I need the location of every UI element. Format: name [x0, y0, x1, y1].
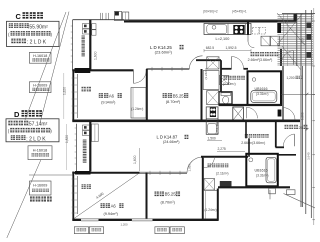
closet C	[131, 88, 146, 119]
svg-text:(9.94m²): (9.94m²)	[101, 100, 116, 104]
svg-text:1,500: 1,500	[208, 136, 216, 140]
svg-text:(9.94m²): (9.94m²)	[104, 212, 119, 216]
wall bedroom A/B D	[146, 173, 148, 220]
svg-text:H-16009: H-16009	[33, 184, 47, 188]
sliding door track D	[140, 171, 188, 173]
balcony D ticks	[75, 127, 77, 129]
washer pan box C	[220, 76, 229, 85]
svg-text:3,640: 3,640	[307, 152, 311, 160]
svg-text:2.66m²(3.66m²): 2.66m²(3.66m²)	[241, 141, 265, 145]
bottom exterior wall	[72, 219, 218, 221]
balcony C ticks	[71, 25, 73, 27]
washroom D door arc	[203, 157, 205, 168]
bath D bottom wall	[218, 186, 290, 188]
door arc bedroom A C	[132, 70, 134, 83]
hall wall C with door	[247, 22, 249, 35]
svg-text::57.14m²: :57.14m²	[28, 122, 48, 128]
tick bottom right	[269, 190, 271, 199]
unit right wall mid	[282, 66, 284, 121]
bedroom A C label	[99, 93, 103, 98]
LDK D left wall	[89, 122, 91, 172]
black junction balcony D	[75, 171, 91, 175]
laundry pole D	[82, 184, 86, 189]
washer pan D	[204, 179, 215, 191]
diagonal dim 4600 D	[74, 173, 140, 219]
wall between bedroom A and B (C)	[146, 69, 148, 122]
right outer dim line	[313, 8, 315, 225]
leader line C	[7, 160, 41, 239]
svg-text:1,820: 1,820	[65, 135, 69, 143]
svg-text:1,200: 1,200	[121, 222, 128, 226]
svg-text:UB1616: UB1616	[255, 169, 268, 173]
svg-text:L=2,100: L=2,100	[216, 121, 220, 134]
washroom D label	[208, 164, 212, 168]
svg-text:2,275: 2,275	[218, 147, 226, 151]
top exterior wall	[124, 20, 297, 22]
svg-text:L=2,100: L=2,100	[216, 37, 230, 41]
washroom D left wall	[202, 157, 204, 221]
svg-text:1,600: 1,600	[133, 155, 137, 164]
shutter label box H-16018 (C)	[29, 52, 51, 63]
LDK C window	[92, 24, 96, 30]
leader line D horizontal	[29, 174, 74, 176]
svg-text:H-16018: H-16018	[33, 54, 47, 58]
hood vents above wall	[99, 13, 101, 20]
svg-text:1,592.5: 1,592.5	[226, 46, 237, 50]
svg-text:682.5: 682.5	[206, 46, 214, 50]
svg-text:(23.60m²): (23.60m²)	[155, 50, 173, 55]
bedroom B D right wall	[217, 189, 219, 221]
svg-text:1,200: 1,200	[301, 112, 305, 120]
closet D	[203, 190, 218, 219]
kitchen C stove	[233, 25, 244, 34]
svg-text:: 2 L D K: : 2 L D K	[27, 40, 47, 46]
svg-text:(3.31m²): (3.31m²)	[256, 173, 268, 177]
black junction top right	[277, 23, 281, 33]
svg-text:1,820: 1,820	[63, 87, 67, 95]
door arc bedroom D	[187, 157, 203, 173]
shutter label box H-16018 (D)	[28, 146, 52, 160]
washroom C label	[224, 76, 228, 80]
bedroom A D left wall	[72, 172, 74, 220]
water heater boxes D	[269, 188, 276, 194]
closet CL bedroom B C	[201, 69, 203, 122]
window ticks left wall D	[72, 178, 78, 180]
outdoor units bottom	[74, 227, 88, 234]
svg-text:(1.24m²): (1.24m²)	[204, 68, 208, 79]
svg-text:A6: A6	[111, 204, 117, 209]
PS shaft X-box	[233, 107, 244, 120]
outdoor AC units C balcony	[83, 24, 90, 29]
entrance door D upper arc	[283, 108, 295, 120]
svg-text:C: C	[16, 12, 22, 21]
svg-text:(2.11m²): (2.11m²)	[216, 171, 229, 175]
balcony D vertical text	[83, 140, 87, 144]
svg-text:(90×90)×2: (90×90)×2	[203, 9, 218, 13]
svg-text:D: D	[14, 110, 20, 119]
kitchen D counter	[206, 107, 218, 134]
X box strip C	[207, 57, 219, 69]
LDK D window	[92, 124, 99, 142]
bath C UB1616	[248, 71, 282, 105]
entrance door D	[293, 134, 295, 146]
WC C	[219, 92, 232, 104]
svg-text:(45×45)×1: (45×45)×1	[232, 9, 247, 13]
leader line A	[40, 12, 69, 123]
corridor walls	[296, 14, 298, 67]
svg-text:H-16009: H-16009	[33, 84, 47, 88]
washroom C top wall	[196, 59, 221, 61]
shutter label box H-16009 (D)	[30, 181, 52, 195]
info box D-type	[6, 119, 59, 142]
svg-text:1,200: 1,200	[301, 38, 305, 46]
svg-text::55.90m²: :55.90m²	[28, 24, 48, 30]
svg-text:(8.70m²): (8.70m²)	[166, 100, 181, 104]
svg-text:(1.24m²): (1.24m²)	[131, 107, 143, 111]
bedroom A D top wall	[72, 172, 139, 174]
svg-text:B5.25: B5.25	[165, 192, 177, 197]
svg-text:(2.90m²): (2.90m²)	[223, 82, 236, 86]
bottom windows	[81, 219, 99, 221]
kitchen D sink	[208, 124, 217, 134]
svg-text:A6: A6	[109, 93, 115, 98]
bedroom B D label	[155, 192, 159, 197]
washroom C door arc	[231, 57, 233, 69]
corridor hatch lines	[278, 14, 314, 16]
kitchen C counter	[204, 24, 251, 35]
svg-text:: 2 L D K: : 2 L D K	[26, 136, 46, 142]
washroom C left wall	[220, 60, 222, 92]
svg-text:2.66m²(3.66m²): 2.66m²(3.66m²)	[248, 58, 273, 62]
fire-equipment label	[30, 197, 35, 202]
bedroom A D label	[101, 203, 105, 208]
shoe cabinet C	[261, 36, 270, 46]
corridor top line	[282, 13, 315, 15]
hall D walls	[245, 121, 247, 139]
svg-text:(24.66m²): (24.66m²)	[163, 140, 180, 144]
leader line B	[25, 12, 66, 120]
balcony C left edge	[72, 20, 74, 71]
mid line right	[281, 94, 315, 96]
kitchen D stove	[210, 107, 216, 117]
balcony C vertical text	[82, 36, 85, 40]
svg-text:(3.31m²): (3.31m²)	[256, 92, 268, 96]
info box C-type	[7, 21, 60, 46]
bath D UB1616	[246, 154, 277, 187]
dim slashes right	[305, 93, 308, 96]
entrance door C	[292, 51, 294, 65]
boundary wall C/D	[72, 120, 300, 123]
shutter label box H-16009 (C)	[29, 82, 51, 93]
svg-text:1,600: 1,600	[93, 51, 97, 60]
laundry pole C	[82, 87, 86, 92]
washer pan C	[207, 91, 219, 105]
black junction balcony C	[75, 68, 91, 73]
water heater label	[285, 125, 289, 129]
window ticks left wall C	[72, 77, 78, 79]
interior door arc D hall	[247, 107, 258, 118]
outdoor AC units D balcony	[83, 125, 90, 130]
door arc bedroom B C	[189, 56, 202, 69]
dashed storage C	[253, 28, 260, 34]
bedroom A C top wall	[72, 69, 133, 71]
hall label C	[251, 52, 255, 56]
bath block bottom wall C	[219, 104, 282, 106]
hall D label	[245, 134, 248, 138]
balcony D left edge	[76, 124, 78, 172]
LDK C left wall	[89, 20, 91, 71]
bedroom A C left wall	[72, 70, 74, 121]
bedroom B C label	[163, 93, 167, 98]
washroom D top wall	[201, 156, 248, 158]
svg-text:(8.70m²): (8.70m²)	[161, 201, 176, 205]
svg-text:1,050: 1,050	[188, 164, 192, 172]
bedroom B C top track	[146, 67, 189, 69]
washbasin D	[220, 181, 232, 187]
svg-text:1,200: 1,200	[287, 76, 295, 80]
right edge dark marks	[307, 23, 312, 29]
svg-text:(1.24m²): (1.24m²)	[205, 208, 217, 212]
svg-text:B5.25: B5.25	[173, 93, 185, 98]
corridor diagonals	[277, 13, 303, 45]
kitchen C sink	[207, 25, 227, 34]
svg-text:H-16018: H-16018	[33, 148, 48, 152]
